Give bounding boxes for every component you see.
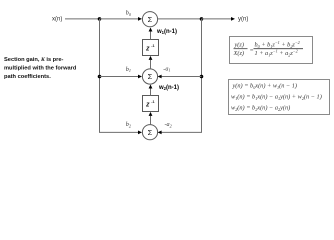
delay block Z1 (143, 40, 159, 56)
arrow into S2 right (158, 75, 162, 79)
svg-text:-1: -1 (151, 44, 154, 48)
svg-text:Σ: Σ (148, 15, 153, 24)
svg-text:x(n): x(n) (52, 16, 62, 22)
node D branch junction (200, 75, 204, 79)
node C branch junction (98, 75, 102, 79)
eq E1 lhs Y(z) over X(z) (233, 42, 254, 58)
svg-text:z: z (145, 45, 150, 52)
arrow into S2 left (138, 75, 142, 79)
svg-text:=: = (250, 47, 254, 54)
summer S2 (142, 69, 157, 84)
arrow into S1 left (138, 17, 142, 21)
svg-text:Section gain, K is pre-: Section gain, K is pre- (4, 57, 64, 63)
svg-text:-a1: -a1 (163, 65, 170, 72)
arrow into S1 bottom (149, 28, 153, 32)
arrow into S3 right (158, 131, 162, 135)
svg-text:b0: b0 (126, 10, 132, 17)
svg-text:z: z (145, 101, 150, 108)
caption text (4, 57, 77, 80)
arrow into S3 left (138, 131, 142, 135)
equation box E1 (230, 37, 313, 64)
equation box E2 (229, 80, 330, 115)
wire node A to summer S1 (100, 18, 139, 20)
arrow into S2 bottom (149, 85, 153, 89)
node B output junction (200, 17, 204, 21)
svg-text:w1(n) = b1x(n) − a1y(n) + w2(n: w1(n) = b1x(n) − a1y(n) + w2(n − 1) (231, 94, 322, 101)
wire S3 up to Z2 (150, 116, 152, 125)
svg-text:b1: b1 (126, 66, 131, 73)
wire node C to summer S2 (100, 76, 139, 78)
svg-text:Σ: Σ (148, 72, 153, 81)
wire input x(n) to node A (65, 18, 100, 20)
svg-text:y(n) = b0x(n) + w1(n − 1): y(n) = b0x(n) + w1(n − 1) (232, 83, 298, 90)
arrow to y(n) (231, 17, 235, 21)
arrow into Z1 bottom (149, 56, 153, 60)
summer S1 (142, 12, 157, 27)
svg-text:w2(n-1): w2(n-1) (158, 85, 179, 91)
node A input junction (98, 17, 102, 21)
svg-text:multiplied with the forward: multiplied with the forward (4, 66, 77, 72)
wire right vertical node B down (161, 19, 202, 132)
svg-text:w1(n-1): w1(n-1) (156, 29, 177, 35)
summer S3 (142, 125, 157, 140)
delay block Z2 (143, 96, 159, 112)
wire left vertical node A down (100, 19, 139, 132)
wire Z1 up to S1 (150, 31, 152, 40)
arrow into Z2 bottom (149, 112, 153, 116)
svg-text:w2(n) = b2x(n) − a2y(n): w2(n) = b2x(n) − a2y(n) (231, 105, 290, 112)
wire node D to S2 (161, 76, 202, 78)
svg-text:path coefficients.: path coefficients. (4, 74, 51, 80)
eq E1 fraction bar (254, 48, 304, 50)
svg-text:y(n): y(n) (238, 16, 248, 22)
wire Z2 up to S2 (150, 88, 152, 96)
wire S1 to node B (158, 18, 202, 20)
svg-text:Σ: Σ (148, 128, 153, 137)
svg-text:-a2: -a2 (165, 121, 172, 128)
svg-text:y(z): y(z) (234, 42, 244, 49)
svg-text:-1: -1 (151, 100, 154, 104)
wire node B to output (202, 18, 232, 20)
svg-text:X(z): X(z) (233, 50, 245, 57)
svg-text:b2: b2 (126, 121, 131, 128)
wire S2 up to Z1 (150, 60, 152, 69)
